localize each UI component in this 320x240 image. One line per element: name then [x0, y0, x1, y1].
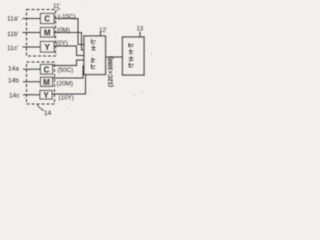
- box Y1: [41, 42, 55, 53]
- wire Y2 out: [52, 75, 86, 95]
- box Y2: [40, 91, 52, 100]
- box C1: [41, 14, 55, 24]
- box M2: [41, 77, 53, 86]
- wire C2 out: [53, 60, 85, 66]
- leader 14: [37, 105, 44, 111]
- svg-text:11a': 11a': [7, 16, 19, 23]
- svg-text:M: M: [43, 78, 50, 87]
- wire M2 out: [53, 66, 85, 78]
- svg-text:(0Y): (0Y): [56, 40, 68, 47]
- svg-text:11': 11': [53, 4, 60, 10]
- svg-text:(0M): (0M): [57, 27, 70, 34]
- wire 14c to Y2: [23, 94, 40, 96]
- svg-text:C: C: [44, 15, 50, 24]
- dashed group box 14: [27, 62, 55, 104]
- box C2: [41, 65, 53, 75]
- wire 11b to M1: [23, 32, 41, 34]
- box 12: [84, 36, 106, 75]
- svg-text:M: M: [44, 28, 51, 37]
- svg-text:(12C+30M): (12C+30M): [109, 57, 115, 87]
- svg-text:(20M): (20M): [57, 80, 73, 87]
- svg-text:Y: Y: [43, 91, 49, 100]
- svg-text:C: C: [44, 65, 50, 74]
- svg-text:14: 14: [44, 110, 52, 117]
- box M1: [41, 28, 55, 38]
- wire 12 to 13: [106, 56, 123, 58]
- wire 11c to Y1: [23, 46, 41, 48]
- wire Y1 out: [54, 46, 84, 56]
- interior marks box 13: [128, 43, 134, 67]
- wire 11a to C1: [23, 18, 41, 20]
- interior marks box 12: [91, 39, 97, 69]
- svg-text:(10Y): (10Y): [59, 95, 74, 102]
- svg-text:12': 12': [99, 28, 107, 34]
- wire 14b to M2: [23, 81, 41, 83]
- background: [0, 0, 160, 120]
- wire M1 out: [54, 33, 84, 51]
- svg-text:11b': 11b': [7, 31, 19, 38]
- svg-text:14a: 14a: [8, 66, 19, 73]
- svg-text:14b: 14b: [8, 78, 19, 85]
- box 13: [123, 37, 145, 75]
- svg-text:13: 13: [137, 27, 144, 33]
- svg-text:11c': 11c': [7, 45, 18, 52]
- leader 13: [139, 32, 141, 38]
- svg-text:(-15C): (-15C): [58, 14, 76, 21]
- svg-text:Y: Y: [45, 43, 51, 52]
- scan noise: [2, 4, 155, 118]
- svg-text:14c: 14c: [9, 93, 20, 100]
- wire C1 out: [54, 19, 84, 45]
- leader 12: [100, 32, 102, 36]
- wire 14a to C2: [23, 68, 41, 70]
- leader 11: [57, 9, 61, 12]
- dashed group box 11: [27, 10, 56, 57]
